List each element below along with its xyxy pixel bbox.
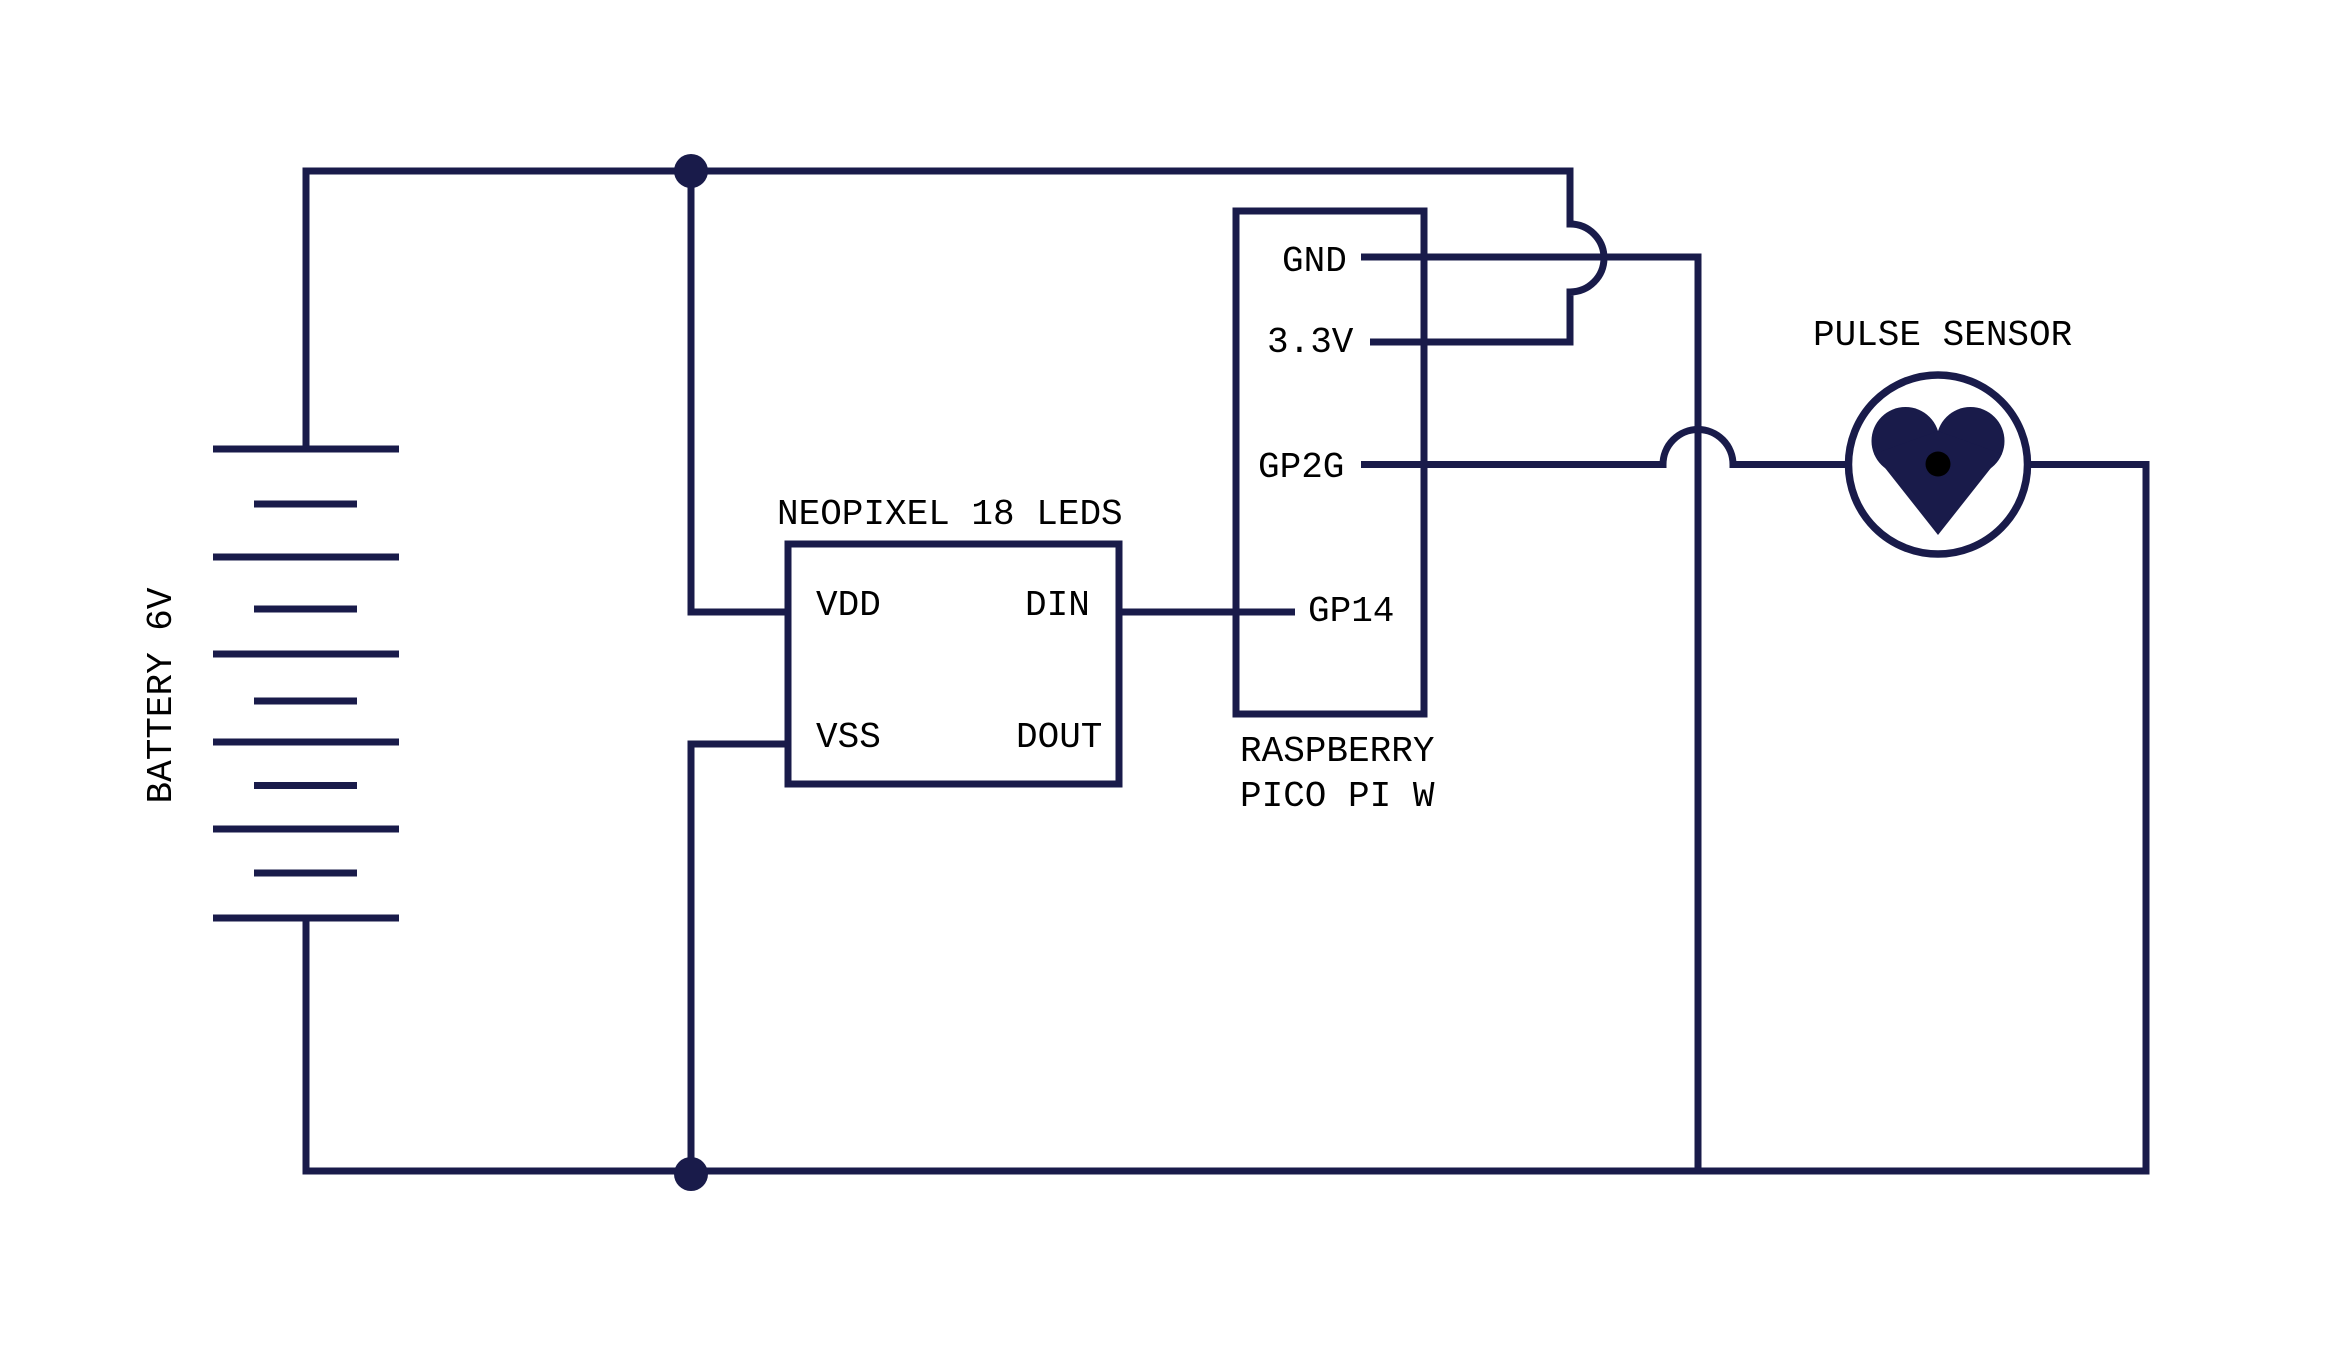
node B: junction dot bottom <box>674 1157 708 1191</box>
wire: top net (battery+ to 3.3V pin, with hop over GND wire) <box>306 171 1604 449</box>
svg-text:VDD: VDD <box>816 585 881 626</box>
battery plate long 1 (+) <box>213 446 399 453</box>
raspberry pico U2 box <box>1236 211 1424 714</box>
wire: GP2G to pulse sensor (hop over GND vertical) <box>1361 430 1850 465</box>
svg-text:PICO PI W: PICO PI W <box>1240 776 1435 817</box>
wire: VSS branch to bottom net <box>691 744 788 1171</box>
battery plate long 6 (-) <box>213 915 399 922</box>
svg-text:GND: GND <box>1282 241 1347 282</box>
svg-text:NEOPIXEL 18 LEDS: NEOPIXEL 18 LEDS <box>777 494 1123 535</box>
svg-text:DOUT: DOUT <box>1016 717 1102 758</box>
svg-text:PULSE SENSOR: PULSE SENSOR <box>1813 315 2072 356</box>
battery plate short 4 <box>254 782 357 789</box>
battery plate short 3 <box>254 698 357 705</box>
svg-text:DIN: DIN <box>1025 585 1090 626</box>
svg-text:VSS: VSS <box>816 717 881 758</box>
battery plate short 2 <box>254 606 357 613</box>
pulse sensor center dot <box>1926 452 1951 477</box>
svg-text:3.3V: 3.3V <box>1267 322 1354 363</box>
battery plate short 1 <box>254 501 357 508</box>
pulse sensor PS1 circle <box>1849 375 2028 554</box>
battery plate short 5 <box>254 870 357 877</box>
battery plate long 2 <box>213 554 399 561</box>
wire: VDD branch from top junction <box>691 171 788 612</box>
battery plate long 3 <box>213 651 399 658</box>
svg-text:GP2G: GP2G <box>1258 447 1344 488</box>
neopixel U1 box <box>788 544 1119 784</box>
pulse sensor heart <box>1872 407 2005 535</box>
svg-text:GP14: GP14 <box>1308 591 1394 632</box>
svg-text:BATTERY 6V: BATTERY 6V <box>141 587 182 803</box>
node A: junction dot top <box>674 154 708 188</box>
battery BT1 6V <box>213 449 399 918</box>
battery plate long 4 <box>213 739 399 746</box>
wire: GND pin to bottom net <box>1361 257 1698 1171</box>
svg-text:RASPBERRY: RASPBERRY <box>1240 731 1434 772</box>
battery plate long 5 <box>213 826 399 833</box>
wire: bottom net (battery- along bottom, up right side to pulse sensor) <box>306 465 2146 1172</box>
wire: DIN to GP14 <box>1119 609 1295 616</box>
